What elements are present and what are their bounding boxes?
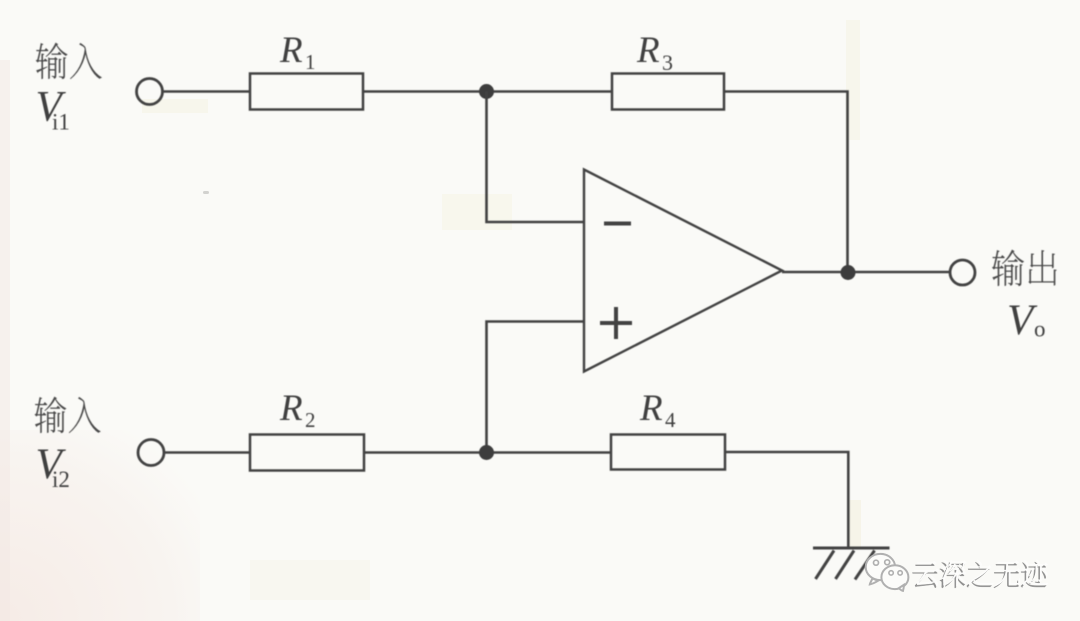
watermark text 云深之无迹 — [914, 560, 1048, 586]
node B junction dot (non-inverting input node) — [479, 445, 494, 460]
wire R1 to R3 — [363, 90, 612, 93]
wire op-amp output to output terminal — [782, 271, 950, 274]
wire input1 to R1 — [163, 90, 251, 93]
resistor R1 — [250, 74, 363, 110]
resistor R2 — [250, 435, 364, 471]
svg-text:i1: i1 — [52, 110, 70, 135]
op-amp minus sign — [604, 222, 631, 226]
svg-text:1: 1 — [305, 50, 316, 74]
label Vi2 — [36, 441, 70, 492]
label 输出 (output) — [992, 250, 1057, 286]
svg-text:2: 2 — [305, 408, 316, 432]
svg-text:4: 4 — [665, 408, 676, 432]
input terminal Vi1 circle — [137, 79, 163, 105]
svg-text:R: R — [279, 388, 303, 429]
label R3 — [636, 30, 673, 75]
output terminal Vo circle — [950, 260, 975, 285]
label R4 — [639, 388, 676, 432]
wire R2 to R4 — [364, 451, 611, 454]
node A junction dot (inverting input node) — [479, 84, 494, 99]
wire R4 to ground corner — [725, 452, 848, 548]
svg-text:o: o — [1034, 317, 1046, 342]
wire R3 to output node corner — [724, 92, 848, 273]
ground symbol — [813, 548, 890, 580]
wire input2 to R2 — [164, 451, 250, 454]
label R1 — [279, 30, 316, 74]
wire node B up to op-amp non-inverting input — [487, 322, 585, 453]
label R2 — [279, 388, 316, 432]
op-amp plus sign — [600, 307, 632, 339]
output node junction dot — [841, 265, 856, 280]
wire node A down to op-amp inverting input — [487, 92, 585, 223]
svg-text:R: R — [636, 30, 660, 71]
label 输入 (input, upper) — [36, 43, 102, 80]
svg-text:3: 3 — [662, 50, 673, 75]
label 输入 (input, lower) — [35, 397, 101, 434]
resistor R4 — [611, 435, 725, 470]
svg-text:i2: i2 — [52, 467, 70, 492]
resistor R3 — [612, 74, 724, 110]
svg-text:R: R — [639, 388, 663, 429]
watermark text 云深之无迹 shadow — [912, 562, 1046, 588]
label Vo — [1007, 297, 1046, 344]
label Vi1 — [36, 84, 70, 135]
watermark WeChat icon — [866, 554, 909, 591]
svg-text:R: R — [279, 30, 303, 71]
op-amp U1 triangle — [584, 170, 782, 372]
input terminal Vi2 circle — [138, 440, 164, 466]
